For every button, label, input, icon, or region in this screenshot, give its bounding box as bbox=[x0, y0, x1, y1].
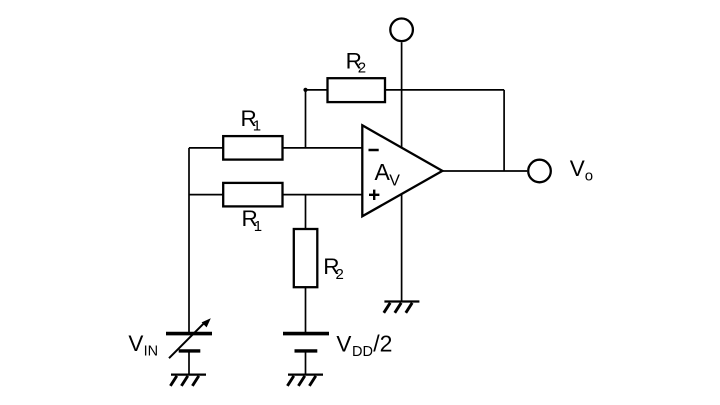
label plus input bbox=[369, 190, 379, 200]
wire non-inverting input (left of R1) bbox=[189, 194, 223, 196]
resistor R2 (feedback) bbox=[328, 78, 386, 102]
label Vo bbox=[570, 156, 593, 184]
wire VIN to ground bbox=[188, 352, 190, 374]
terminal VDD (top circle) bbox=[390, 19, 413, 42]
svg-text:1: 1 bbox=[253, 118, 261, 135]
ground (op-amp supply return) bbox=[384, 302, 420, 313]
wire VDD supply vertical bbox=[401, 42, 403, 301]
label VIN bbox=[128, 331, 158, 359]
ground (VDD/2) bbox=[287, 375, 323, 386]
resistor R1 (bottom) bbox=[223, 183, 282, 207]
label R1 (top) bbox=[241, 106, 262, 134]
wire inverting input (left of R1) bbox=[189, 147, 223, 149]
resistor R1 (top) bbox=[223, 136, 282, 160]
terminal Vo (output circle) bbox=[528, 160, 551, 183]
wire non-inverting input (right of R1) bbox=[283, 194, 363, 196]
source VIN (variable battery) bbox=[166, 334, 212, 351]
svg-text:DD: DD bbox=[352, 344, 373, 360]
wire branch to R2 (vertical) bbox=[305, 195, 307, 229]
svg-text:V: V bbox=[389, 172, 400, 189]
label R2 (feedback) bbox=[346, 48, 367, 76]
svg-text:1: 1 bbox=[254, 218, 262, 235]
op-amp U1 (AV) bbox=[362, 125, 442, 216]
wire inverting input (right of R1) bbox=[283, 147, 363, 149]
label R1 (bottom) bbox=[242, 206, 263, 235]
svg-text:2: 2 bbox=[358, 60, 366, 77]
source VDD/2 (battery) bbox=[283, 334, 329, 351]
wire R2 to VDD/2 source bbox=[305, 287, 307, 332]
svg-text:V: V bbox=[128, 331, 143, 356]
svg-text:/2: /2 bbox=[373, 330, 392, 356]
svg-text:V: V bbox=[570, 156, 585, 181]
ground (VIN) bbox=[170, 375, 206, 386]
wire feedback left horizontal bbox=[306, 89, 328, 91]
svg-text:o: o bbox=[585, 167, 593, 184]
wire feedback left vertical drop to inverting node bbox=[305, 90, 307, 148]
label AV gain bbox=[375, 159, 401, 189]
wire left input vertical bbox=[188, 148, 190, 332]
wire output bbox=[442, 170, 527, 172]
svg-text:2: 2 bbox=[336, 266, 344, 283]
arrow (variable source) bbox=[169, 318, 211, 358]
svg-text:V: V bbox=[336, 331, 351, 356]
svg-text:IN: IN bbox=[144, 344, 159, 360]
label R2 (vertical) bbox=[323, 254, 344, 283]
svg-text:A: A bbox=[375, 159, 391, 185]
label minus input bbox=[369, 149, 379, 152]
junction dot (feedback corner) bbox=[303, 88, 307, 92]
wire feedback right horizontal bbox=[385, 89, 504, 91]
label VDD/2 bbox=[336, 330, 392, 359]
wire VDD/2 to ground bbox=[305, 352, 307, 374]
wire feedback right vertical drop to output bbox=[503, 90, 505, 171]
resistor R2 (vertical) bbox=[294, 229, 318, 287]
